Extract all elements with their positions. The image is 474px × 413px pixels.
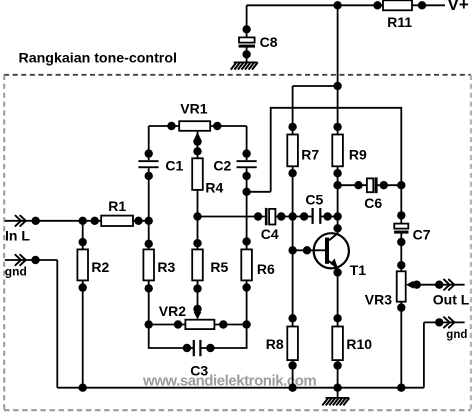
svg-text:C3: C3 [190,362,208,378]
node R4/R5/C4 junction [193,212,201,220]
node R10 / ground rail [333,384,341,392]
node C6 / C7 column [397,181,405,189]
ground (C8) [231,62,258,69]
resistor R8 [287,327,298,361]
wire VR1 right arm to C2 [210,126,246,160]
wire R4 to R5 column [197,190,199,250]
potentiometer VR3 [397,271,406,301]
terminal dot R8 top [288,314,296,322]
wire ground stub below rail [337,388,339,398]
wire R8 to ground rail [292,360,294,388]
terminal dot R10 bottom [333,361,341,369]
node VR2-left / R3 column [145,320,153,328]
potentiometer VR2 [185,320,214,329]
terminal gnd (input) [15,255,25,265]
resistor R5 [192,249,203,280]
wire R10 to ground rail [337,360,339,388]
terminal dot C8 bottom [242,50,250,58]
terminal dot R11 left [373,1,381,9]
svg-text:C8: C8 [260,34,278,50]
capacitor C6 [367,178,373,192]
wire ground rail (bottom) [57,387,424,389]
node C6 / collector column [333,181,341,189]
wire base wire [293,249,326,251]
resistor R4 [192,158,203,190]
transistor Q T1 [314,233,349,268]
wire link C2 node to riser [247,191,271,193]
capacitor C4 [265,208,268,225]
svg-text:VR2: VR2 [159,303,186,319]
wire collector node to C6 [338,184,402,186]
wire link rail junction to R7 [293,86,338,135]
wire R1 node down to R2 [82,221,84,250]
terminal dot C4 left [254,212,262,220]
terminal dot R8 bottom [288,361,296,369]
node R8 / ground rail [288,384,296,392]
wire gnd-out branch [424,322,465,387]
svg-text:R5: R5 [210,259,228,275]
svg-text:Out L: Out L [433,291,470,307]
terminal dot R7 top [288,123,296,131]
terminal dot C3 right [206,344,214,352]
terminal dot C1 top [145,149,153,157]
terminal dot R10 top [333,314,341,322]
terminal dot C2 bottom [242,172,250,180]
terminal dot C8 top [242,25,250,33]
terminal dot VR2 right [219,320,227,328]
svg-text:C6: C6 [364,195,382,211]
node input/R2 junction [79,217,87,225]
node VR3 / ground rail [397,384,405,392]
wire R2 down to ground rail [82,280,84,387]
svg-text:R8: R8 [266,336,284,352]
terminal dot R2 bottom [79,283,87,291]
terminal dot R3 bottom [145,284,153,292]
svg-text:R10: R10 [346,336,372,352]
terminal dot C1 bottom [145,172,153,180]
terminal dot base [303,246,311,254]
wire VR1 wiper stem to R4 [197,132,199,159]
terminal Out L [444,280,454,290]
svg-text:T1: T1 [350,262,367,278]
terminal dot C5 right [323,212,331,220]
svg-text:R1: R1 [108,198,126,214]
capacitor C1 [138,160,158,162]
wire R4 node to C4 [198,216,265,218]
capacitor C8 [239,37,255,42]
svg-text:Rangkaian tone-control: Rangkaian tone-control [19,51,177,67]
dashed enclosure (tone-control block outline) [4,75,471,410]
wire R9 down to collector [337,166,339,235]
wire R5 to VR2 wiper [197,280,199,313]
svg-text:VR3: VR3 [365,292,392,308]
dot on VR3 wiper stem [413,281,421,289]
svg-text:gnd: gnd [446,329,467,341]
terminal In L [15,216,25,226]
svg-text:V+: V+ [448,0,469,14]
wire supply drop to R9/collector column [337,5,339,134]
svg-text:C2: C2 [213,158,231,174]
potentiometer VR1 [179,121,210,131]
terminal dot VR2 left [174,320,182,328]
terminal dot Out L [435,281,443,289]
terminal dot C7 bottom [397,238,405,246]
svg-text:R7: R7 [301,146,319,162]
svg-text:C1: C1 [165,158,183,174]
terminal dot C2 top [242,149,250,157]
wire VR3 bottom to ground rail [400,302,402,388]
resistor R6 [241,249,252,280]
capacitor C2 [237,160,257,162]
terminal dot VR1 right [213,122,221,130]
svg-text:R11: R11 [387,14,412,30]
svg-text:C5: C5 [305,191,323,207]
wire gnd-in branch [5,260,58,388]
svg-text:R3: R3 [157,259,175,275]
node base junction [288,246,296,254]
wire C5 to collector column [321,216,338,218]
wire VR2 left arm [149,324,186,326]
terminal dot R5 bottom [193,284,201,292]
svg-text:C7: C7 [413,226,431,242]
svg-text:R2: R2 [91,259,109,275]
wire C4 to C5 [275,216,311,218]
wire emitter down to R10 [337,266,339,326]
svg-text:gnd: gnd [5,264,27,278]
resistor R1 [101,216,133,226]
svg-text:R9: R9 [349,146,367,162]
wire VR1 left arm to C1 [149,126,180,160]
terminal dot R2 top [79,238,87,246]
terminal dot C6 left [354,181,362,189]
wire treble feed (C2 node up and over to C7) [271,108,402,224]
terminal dot C7 top [397,211,405,219]
terminal dot collector [333,224,341,232]
wire C8 branch from rail [246,5,248,62]
terminal dot R6 bottom [242,283,250,291]
terminal gnd (output) [444,317,454,327]
svg-text:In L: In L [5,227,30,243]
terminal dot C3 left [183,344,191,352]
dot on VR1 wiper stem upper [193,137,201,145]
terminal dot R1 right [134,217,142,225]
svg-text:R4: R4 [205,180,223,196]
terminal dot gnd-in [31,256,39,264]
wire R3 column down to C3 left [149,280,193,348]
svg-text:VR1: VR1 [180,101,207,117]
terminal dot R11 right [418,1,426,9]
resistor R10 [332,327,343,361]
terminal dot gnd-out [435,318,443,326]
terminal dot VR3 top [397,261,405,269]
dot on VR2 wiper stem [193,305,201,313]
terminal dot R5 top [193,239,201,247]
terminal dot emitter [333,268,341,276]
junction V+ rail / supply drop [333,1,341,9]
wire R7 to base node to R8 [292,166,294,326]
node R1/C1/R3 junction [145,217,153,225]
wire R6 column down to C3 right [201,280,246,348]
terminal dot In L [32,217,40,225]
resistor R3 [143,249,154,280]
wire input line [5,220,149,222]
terminal dot VR3 bottom [397,303,405,311]
capacitor C3 [193,340,195,356]
resistor R11 [383,0,412,10]
resistor R7 [287,135,298,167]
node VR2-right / R6 column [242,320,250,328]
terminal dot R9 top [333,123,341,131]
svg-text:C4: C4 [261,226,279,242]
wire VR2 right arm [214,324,246,326]
node C4-C5 / R7 column [288,212,296,220]
resistor R2 [77,249,88,280]
resistor R9 [332,135,343,167]
wire V+ supply rail [247,4,445,6]
terminal dot R1 left [91,217,99,225]
svg-text:R6: R6 [257,261,275,277]
capacitor C7 [394,224,408,229]
wire C7 to VR3 [400,234,402,272]
wire C2 to R6 column [246,168,248,249]
terminal dot R7 bottom [288,169,296,177]
node R2 / ground rail [79,384,87,392]
terminal dot C6 right [380,181,388,189]
wire VR3 wiper to Out L [413,284,465,286]
node supply drop junction in box [333,82,341,90]
ground (main) [322,398,349,406]
terminal dot R6 top [242,237,250,245]
terminal dot C4 right [277,212,285,220]
node C5 / collector column [333,212,341,220]
terminal dot R3 top [145,240,153,248]
wire C1 to R1 node to R3 [148,168,150,249]
capacitor C5 [312,208,314,224]
terminal dot C5 left [300,212,308,220]
dot on VR1 wiper stem lower [193,147,201,155]
node C2/R6/treble junction [242,188,250,196]
terminal dot VR1 left [167,122,175,130]
terminal dot R9 bottom [333,169,341,177]
